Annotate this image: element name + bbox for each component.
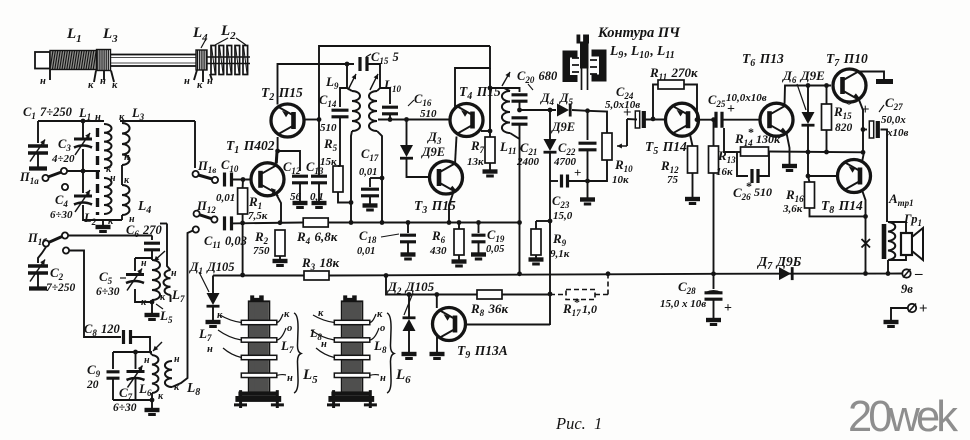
T1 emitter arrow: [271, 188, 276, 193]
speaker bottom lead: [888, 255, 906, 260]
T8 collector down: [862, 190, 866, 274]
svg-text:*: *: [846, 97, 852, 111]
svg-text:*: *: [748, 125, 754, 139]
capacitor C19: [478, 223, 480, 234]
bus wire right of R3: [329, 274, 714, 276]
svg-text:н: н: [100, 76, 106, 87]
svg-text:Д1 Д105: Д1 Д105: [189, 260, 235, 276]
svg-text:Рис. 1: Рис. 1: [555, 414, 602, 433]
svg-text:430: 430: [429, 245, 447, 257]
resistor R13: [713, 120, 715, 146]
autotransformer winding: [888, 222, 895, 260]
capacitor C9: [107, 372, 120, 378]
wire L3-L4 link: [121, 165, 123, 185]
svg-text:*: *: [574, 295, 580, 309]
svg-text:н: н: [207, 344, 213, 355]
wire L8 to switch line: [172, 231, 193, 388]
detector wire: [520, 109, 557, 111]
coil L9: [352, 91, 360, 131]
L11 bottom: [510, 133, 520, 139]
svg-text:н: н: [124, 152, 130, 163]
R16 bottom to collector line: [810, 208, 866, 216]
svg-text:0,05: 0,05: [486, 244, 504, 255]
svg-text:х10в: х10в: [886, 127, 909, 139]
L10 bottom wire: [377, 131, 382, 223]
trimmer C4: [82, 149, 84, 193]
minus terminal: [902, 269, 910, 277]
svg-text:к: к: [88, 80, 94, 91]
wire D4 to C22: [572, 109, 588, 112]
coil former ('L', '6') body: [343, 295, 357, 301]
svg-text:6÷30: 6÷30: [50, 209, 73, 221]
rod lead wires: [49, 70, 51, 81]
svg-text:15к: 15к: [320, 156, 337, 168]
svg-text:н: н: [380, 373, 386, 384]
svg-text:7,5к: 7,5к: [248, 210, 268, 222]
T8 base wire: [808, 175, 837, 177]
coil L8 coupling: [165, 361, 172, 387]
svg-text:6÷30: 6÷30: [113, 402, 137, 414]
wire D2 branch: [386, 276, 477, 295]
svg-text:к: к: [318, 308, 324, 319]
variable capacitor C1: [37, 121, 39, 143]
ground C17: [363, 203, 378, 207]
ground C28: [706, 318, 721, 322]
svg-text:510: 510: [420, 108, 437, 120]
R10 bottom: [588, 160, 608, 181]
capacitor C16: [380, 88, 390, 104]
trimmer C7: [135, 352, 137, 369]
coil L10: [369, 91, 377, 131]
diode D3: [406, 120, 408, 146]
T5 collector wire: [699, 119, 714, 121]
capacitor C15: [360, 57, 367, 71]
svg-text:R4 6,8к: R4 6,8к: [296, 229, 338, 246]
resistor R7: [485, 137, 495, 163]
resistor R6: [458, 223, 460, 230]
transformer L11 top wire: [490, 88, 510, 91]
capacitor C25: [716, 112, 722, 128]
coil L2: [104, 178, 112, 214]
coil former ('L', '5') brace: [294, 313, 301, 393]
svg-text:к: к: [112, 80, 118, 91]
svg-text:н: н: [141, 258, 147, 269]
plus terminal: [908, 304, 916, 312]
detector tap junction: [517, 108, 522, 113]
svg-text:0,01: 0,01: [357, 246, 375, 257]
IF pot core symbol: [563, 51, 578, 83]
coil former ('L', '5') base: [235, 396, 281, 402]
dashed resistor R17: [566, 290, 595, 300]
plus terminal wire: [891, 308, 908, 320]
wire C25 to T6 base: [722, 119, 760, 121]
coil L1: [104, 124, 112, 168]
T3 collector to T4 emitter: [455, 137, 457, 165]
svg-text:к: к: [377, 309, 383, 320]
svg-text:–: –: [914, 266, 923, 282]
capacitor C21: [512, 118, 528, 124]
ground C13: [312, 201, 327, 205]
svg-text:R11 270к: R11 270к: [649, 65, 698, 82]
svg-text:о: о: [287, 323, 292, 334]
wire L3 rail down to П1в: [194, 121, 196, 168]
T2 collector up wire: [278, 64, 355, 105]
ground of input tank: [102, 220, 104, 225]
svg-text:R3 18к: R3 18к: [301, 255, 340, 272]
wire C10 to T1 base: [232, 179, 252, 181]
switch contact П1г spare: [193, 226, 199, 232]
coil former ('L', '5') left leader curves: [218, 315, 241, 358]
svg-text:1,0: 1,0: [582, 302, 597, 316]
capacitor C22: [587, 111, 589, 140]
wire D5/C23 down to T9 collector: [549, 181, 551, 325]
svg-text:7÷250: 7÷250: [46, 282, 76, 294]
wire C15 right to L10: [368, 64, 381, 91]
coil former ('L', '5') flanges: [241, 320, 276, 324]
T9 base wire: [436, 295, 438, 309]
tank2 bottom wire: [113, 399, 152, 401]
capacitor C14: [340, 88, 347, 107]
coil L6: [150, 352, 152, 355]
C24 left lead: [627, 118, 637, 121]
coil L4 secondary: [122, 185, 130, 215]
svg-text:о: о: [380, 323, 385, 334]
svg-text:6÷30: 6÷30: [96, 286, 120, 298]
capacitor C13: [318, 120, 320, 177]
svg-text:20wek: 20wek: [848, 393, 958, 440]
T5 emitter to R12: [690, 135, 693, 147]
coil former ('L', '6') base: [328, 396, 374, 402]
svg-text:75: 75: [667, 174, 679, 186]
ground osc tank: [150, 300, 155, 305]
R10 wiper arrow: [617, 145, 627, 147]
svg-text:Контура ПЧ: Контура ПЧ: [597, 25, 681, 41]
svg-text:C11 0,03: C11 0,03: [204, 234, 247, 250]
svg-text:C1 7÷250: C1 7÷250: [23, 105, 73, 121]
T4 base wire with D3: [378, 119, 450, 121]
capacitor C18: [406, 220, 411, 225]
svg-text:0,01: 0,01: [359, 167, 377, 178]
capacitor C17: [370, 177, 382, 179]
svg-text:R8 36к: R8 36к: [470, 301, 509, 318]
coil former ('L', '5') body: [250, 295, 264, 301]
T1 collector wire: [276, 151, 277, 166]
T8 emitter up: [862, 152, 864, 162]
autotransformer core: [882, 224, 887, 259]
resistor R3 18k in bus: [304, 271, 329, 280]
ferrite rod antenna with windings L1 L3 L4 L2: [35, 52, 50, 69]
wire C8 to L6 tank: [131, 337, 150, 352]
svg-text:16к: 16к: [716, 166, 733, 178]
feedback line R14: [735, 151, 740, 153]
svg-text:10к: 10к: [612, 174, 629, 186]
ground R12: [692, 173, 694, 197]
svg-text:15,0: 15,0: [553, 210, 573, 222]
resistor R8 36к: [477, 290, 502, 299]
svg-text:н: н: [287, 373, 293, 384]
coil L11: [502, 91, 510, 133]
resistor R4 6.8k: [303, 218, 328, 227]
winding L2 on rod - loose turns: [211, 46, 216, 75]
T3 emitter down: [449, 191, 454, 223]
core arrows L9 L10: [348, 74, 356, 90]
leader C18: [381, 234, 399, 237]
volume pot R10: [588, 111, 608, 133]
svg-text:+: +: [724, 301, 732, 316]
bottom wire of input tank: [83, 205, 122, 220]
svg-text:н: н: [184, 76, 190, 87]
svg-text:н: н: [40, 76, 46, 87]
ground R7: [489, 163, 491, 170]
svg-text:+: +: [727, 102, 735, 117]
ground C12: [293, 201, 308, 205]
wire П1б to C6: [68, 235, 152, 237]
svg-text:130к: 130к: [756, 132, 781, 146]
svg-text:2400: 2400: [516, 156, 540, 168]
coil former ('L', '6') right leader curves: [370, 314, 379, 375]
x mark on output lead: [862, 239, 871, 248]
ground R2: [273, 259, 288, 263]
svg-text:C20 680: C20 680: [517, 69, 558, 85]
trimmer C5: [126, 273, 144, 276]
T7 collector to chassis: [858, 72, 885, 80]
tank2 left leg: [112, 352, 114, 369]
left stub to C25 node: [724, 128, 735, 152]
junction C3 top: [81, 119, 86, 124]
svg-text:н: н: [174, 354, 180, 365]
wire R8 to node: [502, 294, 550, 296]
svg-text:3,6к: 3,6к: [782, 203, 803, 215]
resistor R2: [275, 230, 285, 256]
tank2 top node: [133, 350, 138, 355]
svg-text:*: *: [746, 179, 752, 193]
svg-text:+: +: [919, 301, 928, 317]
svg-text:к: к: [284, 309, 290, 320]
svg-text:н: н: [144, 355, 150, 366]
svg-text:Д9Е: Д9Е: [551, 120, 575, 134]
diode D6: [807, 86, 809, 113]
junction C15 left: [345, 62, 350, 67]
T6 emitter down: [787, 133, 790, 164]
winding L4 on rod: [196, 50, 207, 70]
capacitor C20: [504, 88, 520, 92]
leader C5: [120, 277, 126, 279]
coil L7 primary: [151, 258, 153, 260]
capacitor C12: [292, 176, 308, 183]
ground R9: [529, 257, 544, 261]
T6 collector up to driver node: [785, 86, 832, 106]
variable capacitor C2: [38, 247, 46, 263]
ground tank2: [151, 400, 153, 408]
capacitor C6: [151, 236, 153, 241]
capacitor C23: [550, 180, 558, 182]
wire L3 top rail: [120, 120, 195, 122]
core arrow L6: [153, 342, 162, 351]
emitter row continues: [329, 222, 520, 224]
C26 parallel loop: [737, 152, 748, 177]
capacitor C8: [124, 330, 131, 344]
resistor R1: [242, 180, 244, 189]
wire R1 to bus: [242, 214, 244, 275]
T2 base wire right: [304, 119, 319, 121]
coil former ('L', '6') flanges: [334, 320, 370, 324]
rail down to R7: [489, 68, 491, 137]
svg-text:15,0 х 10в: 15,0 х 10в: [660, 298, 706, 310]
resistor R12: [688, 146, 698, 173]
svg-text:13к: 13к: [467, 156, 484, 168]
svg-text:9в: 9в: [901, 282, 913, 296]
svg-text:н: н: [171, 268, 177, 279]
T7 emitter down: [859, 99, 864, 153]
capacitor C11: [225, 216, 232, 230]
capacitor C24 electrolytic: [635, 111, 639, 128]
svg-text:750: 750: [253, 245, 270, 257]
svg-text:510: 510: [320, 122, 337, 134]
svg-text:н: н: [207, 76, 213, 87]
coil L3 secondary: [122, 123, 130, 165]
svg-text:н: н: [321, 339, 327, 350]
top feedback rail: [319, 46, 490, 120]
ground R6: [452, 259, 467, 263]
svg-text:20: 20: [86, 379, 99, 391]
svg-text:0,01: 0,01: [216, 192, 235, 204]
svg-text:C6 270: C6 270: [126, 223, 163, 239]
svg-text:Д9Е: Д9Е: [421, 145, 445, 159]
diode D7: [779, 267, 791, 280]
T4 collector from rail: [455, 46, 490, 107]
L9 bottom wire: [351, 131, 352, 223]
coil L7 coupling: [167, 224, 171, 271]
T2 emitter down: [278, 137, 300, 171]
diode D4: [557, 104, 569, 117]
winding L1 on rod: [50, 51, 97, 70]
svg-text:510: 510: [754, 185, 772, 199]
svg-text:к: к: [197, 80, 203, 91]
svg-text:+: +: [861, 102, 870, 118]
svg-text:Д6 Д9Е: Д6 Д9Е: [782, 68, 825, 85]
svg-text:C8 120: C8 120: [84, 322, 121, 338]
winding L3 on rod: [97, 50, 111, 71]
diode D5 shunt: [549, 110, 551, 139]
diode D2: [408, 295, 410, 318]
T9 emitter to ground: [436, 337, 438, 352]
wire П1б lower contact down: [69, 251, 121, 338]
svg-text:Д2 Д105: Д2 Д105: [387, 279, 435, 296]
svg-text:50,0х: 50,0х: [881, 114, 906, 126]
ground C19: [471, 252, 486, 256]
svg-text:820: 820: [835, 122, 853, 134]
C24 to T5 base: [645, 119, 666, 121]
chassis ground T7: [876, 79, 893, 84]
resistor R5: [333, 166, 343, 192]
wire T2 emitter to T1 collector: [276, 151, 279, 164]
resistor R16: [808, 176, 810, 182]
core arrow L7: [154, 251, 165, 261]
capacitor C27 electrolytic: [863, 129, 867, 131]
core arrow L11: [502, 72, 510, 86]
R5 bottom to L9 bottom wire: [338, 192, 351, 203]
wire П1а contact to C3/C4 node: [67, 170, 100, 172]
leader L5: [156, 304, 163, 309]
trimmer C3: [82, 121, 84, 139]
ferrite core dashed L1/L2: [96, 128, 99, 215]
resistor R11 270к: [653, 85, 658, 119]
resistor R15: [826, 86, 828, 105]
T9 collector wire: [465, 324, 550, 326]
capacitor C10: [225, 173, 232, 187]
svg-text:4÷20: 4÷20: [51, 153, 75, 165]
wire stub: [160, 223, 167, 225]
oscillator tank L5: frame: [135, 257, 152, 259]
resistor R9: [536, 220, 550, 222]
bus wire left of R3: [213, 275, 304, 277]
ground plus terminal: [884, 320, 899, 324]
coil former ('L', '5') right leader curves: [277, 314, 286, 375]
speaker: [888, 222, 906, 233]
wire top-left rail to L1: [38, 120, 104, 122]
coil former ('L', '6') brace: [387, 313, 394, 393]
capacitor C28: [713, 274, 715, 289]
coil former ('L', '6') left leader curves: [311, 315, 334, 358]
wire L9 top: [347, 64, 352, 91]
svg-text:4700: 4700: [553, 156, 577, 168]
bus to minus terminal: [714, 273, 903, 275]
ground C18: [401, 252, 416, 256]
ground C22: [580, 197, 595, 201]
emitter wire of T1 row: [232, 222, 303, 225]
T4 emitter to R7: [481, 130, 490, 132]
svg-text:9,1к: 9,1к: [550, 248, 570, 260]
leader lines for L4 L2 labels: [201, 39, 206, 48]
